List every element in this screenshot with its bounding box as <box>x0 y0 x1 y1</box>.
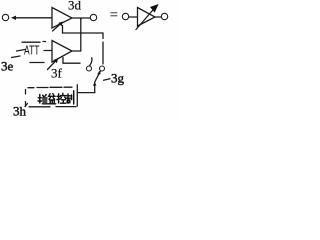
wire ATT to U2 <box>44 50 52 52</box>
svg-text:3f: 3f <box>51 66 63 81</box>
wire U1 arrow to rail <box>62 26 64 34</box>
svg-text:3e: 3e <box>1 59 14 74</box>
switch right contact <box>100 66 105 71</box>
wire rail y33 <box>63 32 104 34</box>
wire U2 output up to node <box>72 50 81 52</box>
junction vertical wire <box>80 18 82 51</box>
wire input to amp U1 <box>14 17 52 19</box>
CJK text 增益控制 (drawn strokes) <box>38 91 74 104</box>
leader tick 3h <box>25 104 28 107</box>
left contact tail <box>90 58 92 66</box>
U2 gain-control arrow <box>48 60 58 70</box>
switch lever <box>95 71 100 81</box>
ATT dashed box bottom <box>30 62 44 64</box>
char 3 <box>57 93 66 103</box>
attenuator ATT (3e) dashed box top <box>22 41 46 44</box>
legend variable arrow <box>136 7 156 30</box>
char 2 <box>48 94 56 104</box>
svg-text:ATT: ATT <box>24 44 40 58</box>
svg-text:3g: 3g <box>111 71 125 86</box>
control wire to switch <box>78 92 95 94</box>
char 4 <box>66 91 73 104</box>
switch pivot stem <box>94 82 96 93</box>
leader dash 3e upper <box>17 50 26 52</box>
op-amp U1 (3d) <box>52 8 72 29</box>
legend input terminal <box>122 13 128 19</box>
legend output wire <box>155 16 161 18</box>
legend amplifier triangle <box>138 8 156 27</box>
char 1 <box>38 95 47 104</box>
switch S1 feed wire <box>102 33 104 64</box>
svg-text:3d: 3d <box>68 0 82 13</box>
legend input wire <box>129 16 137 18</box>
control box (3h) dashed outline <box>28 86 72 89</box>
wire U2 control stub <box>63 58 80 64</box>
U1 gain-control arrow <box>53 23 63 32</box>
legend output terminal <box>161 13 167 19</box>
svg-text:3h: 3h <box>13 104 27 119</box>
leader dash 3g <box>104 79 111 80</box>
junction dot <box>80 18 82 20</box>
leader dash 3e lower <box>12 56 21 58</box>
input terminal <box>2 14 8 20</box>
legend equals sign <box>111 13 117 16</box>
input arrowhead <box>11 16 16 20</box>
switch left contact <box>87 66 92 71</box>
op-amp U2 (3f) <box>52 41 72 63</box>
control arrowhead at pivot <box>93 82 97 86</box>
wire U1 output <box>72 17 90 19</box>
output terminal <box>90 14 96 20</box>
